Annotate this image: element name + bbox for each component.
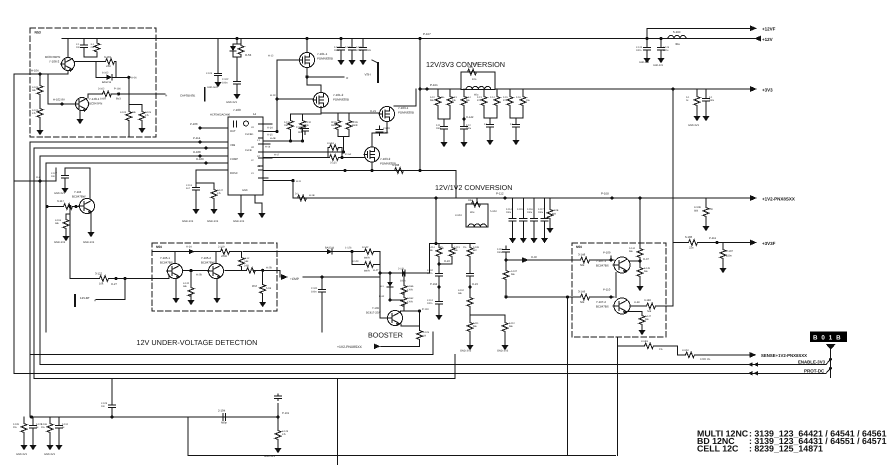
svg-text:GND-3V3: GND-3V3 bbox=[54, 241, 66, 244]
svg-text:N50: N50 bbox=[576, 245, 582, 249]
svg-text:100n: 100n bbox=[709, 99, 715, 102]
svg-text:860R: 860R bbox=[364, 257, 370, 260]
svg-text:220u: 220u bbox=[663, 49, 669, 52]
svg-text:470R: 470R bbox=[407, 289, 413, 292]
svg-text:GND-3V3: GND-3V3 bbox=[207, 220, 219, 223]
svg-text:10o: 10o bbox=[472, 78, 477, 81]
svg-text:10k: 10k bbox=[305, 124, 310, 127]
svg-text:6-106: 6-106 bbox=[685, 235, 693, 239]
svg-text:BC847BS: BC847BS bbox=[596, 264, 609, 268]
svg-text:+3V3F: +3V3F bbox=[762, 241, 776, 246]
svg-text:56k: 56k bbox=[454, 249, 459, 252]
svg-text:5-101: 5-101 bbox=[471, 63, 478, 66]
svg-text:1%: 1% bbox=[659, 348, 663, 351]
svg-text:3-102: 3-102 bbox=[682, 349, 689, 352]
svg-text:3-145: 3-145 bbox=[644, 267, 651, 270]
svg-text:56k: 56k bbox=[473, 325, 478, 328]
svg-text:H-30: H-30 bbox=[531, 256, 537, 259]
svg-text:1R: 1R bbox=[423, 335, 426, 338]
svg-text:2-105: 2-105 bbox=[345, 46, 352, 49]
svg-text:H-14: H-14 bbox=[267, 127, 273, 130]
svg-text:12V UNDER-VOLTAGE DETECTION: 12V UNDER-VOLTAGE DETECTION bbox=[136, 338, 257, 347]
svg-text:360R: 360R bbox=[352, 124, 358, 127]
svg-text:1W: 1W bbox=[709, 208, 713, 211]
svg-text:+12V: +12V bbox=[762, 37, 773, 42]
svg-text:H-06: H-06 bbox=[131, 76, 137, 79]
svg-text:H-108: H-108 bbox=[193, 150, 201, 154]
svg-text:N50: N50 bbox=[156, 245, 162, 249]
svg-text:10u: 10u bbox=[526, 99, 531, 102]
svg-text:GND: GND bbox=[242, 189, 248, 192]
svg-text:3-132: 3-132 bbox=[305, 121, 312, 124]
svg-text:1k: 1k bbox=[36, 426, 39, 429]
svg-text:»: » bbox=[165, 93, 168, 98]
svg-text:56k: 56k bbox=[32, 89, 37, 92]
svg-text:56k: 56k bbox=[466, 99, 471, 102]
svg-text:H-53: H-53 bbox=[245, 53, 252, 57]
svg-text:56k: 56k bbox=[644, 270, 649, 273]
svg-text:PDMN630B: PDMN630B bbox=[333, 98, 349, 102]
svg-text:47k: 47k bbox=[282, 433, 287, 436]
svg-text:»: » bbox=[346, 75, 349, 80]
svg-text:56k: 56k bbox=[580, 301, 585, 304]
svg-text:3-101: 3-101 bbox=[104, 55, 112, 59]
svg-text:BC847BW: BC847BW bbox=[72, 195, 86, 199]
svg-text:CxCB: CxCB bbox=[245, 149, 252, 152]
svg-text:3-143: 3-143 bbox=[352, 260, 359, 263]
svg-text:B 0 1 B: B 0 1 B bbox=[813, 335, 842, 342]
svg-text:2-114: 2-114 bbox=[506, 208, 512, 211]
svg-text:GND-3V3: GND-3V3 bbox=[497, 350, 509, 353]
svg-text:7-103-1: 7-103-1 bbox=[398, 106, 409, 110]
svg-text:56k: 56k bbox=[245, 260, 250, 263]
svg-text:L1: L1 bbox=[257, 139, 260, 142]
svg-text:N53: N53 bbox=[35, 31, 41, 35]
svg-text:22u: 22u bbox=[13, 426, 18, 429]
svg-text:56k: 56k bbox=[430, 99, 435, 102]
svg-text:CAPSENSE: CAPSENSE bbox=[180, 94, 195, 98]
svg-text:4n7: 4n7 bbox=[186, 187, 191, 190]
svg-text:2-104: 2-104 bbox=[218, 409, 226, 413]
svg-text:56k: 56k bbox=[647, 310, 652, 313]
svg-text:3-144: 3-144 bbox=[629, 247, 636, 250]
svg-text:OUT: OUT bbox=[230, 130, 236, 133]
svg-text:P-1x2: P-1x2 bbox=[345, 153, 352, 156]
svg-text:P-114: P-114 bbox=[193, 136, 201, 140]
svg-text:56k: 56k bbox=[132, 111, 137, 114]
svg-text:3-108: 3-108 bbox=[392, 163, 400, 167]
svg-text:100u: 100u bbox=[506, 211, 512, 214]
svg-text:5.1B: 5.1B bbox=[266, 287, 271, 290]
svg-text:47k: 47k bbox=[145, 114, 150, 117]
svg-text:3-147: 3-147 bbox=[645, 315, 652, 318]
svg-text:56k: 56k bbox=[511, 273, 516, 276]
svg-text:100u: 100u bbox=[527, 211, 533, 214]
svg-text:GND-3V3: GND-3V3 bbox=[44, 453, 55, 456]
svg-text:56k: 56k bbox=[580, 264, 585, 267]
svg-text:3-124: 3-124 bbox=[327, 142, 334, 145]
svg-text:GND-3V3: GND-3V3 bbox=[226, 101, 237, 104]
svg-text:5-100: 5-100 bbox=[673, 30, 681, 34]
svg-text:3-148: 3-148 bbox=[578, 253, 586, 257]
svg-text:56k: 56k bbox=[509, 325, 514, 328]
svg-text:2-118: 2-118 bbox=[497, 248, 503, 251]
svg-text:56k: 56k bbox=[629, 250, 634, 253]
svg-text:ROSC: ROSC bbox=[230, 172, 238, 175]
svg-text:3-1: 3-1 bbox=[295, 193, 299, 196]
svg-text:3-124: 3-124 bbox=[62, 423, 69, 426]
svg-text:2-13: 2-13 bbox=[477, 96, 482, 99]
svg-text:SENSE+1V2-PNX8SXX: SENSE+1V2-PNX8SXX bbox=[761, 353, 807, 358]
svg-text:H-15: H-15 bbox=[267, 134, 273, 137]
svg-text:1%: 1% bbox=[440, 246, 443, 249]
svg-text:24k: 24k bbox=[452, 99, 457, 102]
svg-text:40u: 40u bbox=[675, 42, 680, 46]
svg-text:3n3: 3n3 bbox=[384, 132, 389, 135]
svg-text:PDMN630B: PDMN630B bbox=[398, 111, 414, 115]
svg-text:3E1B: 3E1B bbox=[352, 121, 358, 124]
svg-text:GND-AUD: GND-AUD bbox=[207, 86, 218, 89]
svg-text:7-109: 7-109 bbox=[372, 307, 379, 310]
svg-text:360R: 360R bbox=[331, 124, 337, 127]
svg-text:100n: 100n bbox=[222, 82, 228, 85]
svg-text:3-142: 3-142 bbox=[362, 246, 369, 249]
svg-text:5-102: 5-102 bbox=[490, 210, 497, 213]
svg-text:P-103: P-103 bbox=[190, 122, 198, 126]
svg-text:2-1: 2-1 bbox=[709, 96, 713, 99]
svg-text:3-1: 3-1 bbox=[686, 96, 690, 99]
svg-text:2-115: 2-115 bbox=[517, 208, 523, 211]
svg-text:GND-3V3: GND-3V3 bbox=[83, 241, 95, 244]
svg-text:GND-3V3: GND-3V3 bbox=[460, 350, 472, 353]
svg-text:3-146: 3-146 bbox=[644, 299, 651, 302]
svg-text:22o: 22o bbox=[689, 247, 694, 250]
svg-text:100R: 100R bbox=[100, 98, 106, 101]
svg-text:BAS216: BAS216 bbox=[102, 81, 112, 84]
svg-text:H-102 8V: H-102 8V bbox=[53, 98, 65, 102]
svg-text:860R: 860R bbox=[364, 270, 370, 273]
svg-text:22u: 22u bbox=[41, 426, 46, 429]
svg-text:ENABLE-3V3: ENABLE-3V3 bbox=[798, 360, 826, 365]
svg-text:H-24: H-24 bbox=[186, 246, 192, 249]
svg-text:14: 14 bbox=[253, 112, 257, 116]
svg-text:H-38: H-38 bbox=[634, 301, 640, 304]
svg-text:200R: 200R bbox=[221, 255, 227, 258]
svg-text:H-47: H-47 bbox=[373, 269, 379, 272]
svg-text:1%: 1% bbox=[463, 246, 466, 249]
svg-text:GND-3V3: GND-3V3 bbox=[16, 453, 27, 456]
svg-text:PDZ: PDZ bbox=[252, 285, 257, 288]
svg-text:3-103: 3-103 bbox=[455, 214, 462, 217]
svg-text:H-11: H-11 bbox=[296, 180, 302, 183]
svg-text:100n: 100n bbox=[427, 302, 433, 305]
svg-text:P-109: P-109 bbox=[603, 251, 611, 255]
svg-text:CELL 12C: CELL 12C bbox=[697, 444, 739, 454]
svg-text:P-107: P-107 bbox=[423, 32, 431, 36]
svg-text:3-102: 3-102 bbox=[98, 88, 105, 91]
svg-text:3-14: 3-14 bbox=[466, 96, 471, 99]
svg-text:40u: 40u bbox=[470, 211, 475, 214]
svg-text:100u: 100u bbox=[466, 127, 472, 130]
svg-text:GND-3V3: GND-3V3 bbox=[264, 455, 275, 458]
svg-text:2-109: 2-109 bbox=[383, 127, 390, 130]
svg-text:P-108: P-108 bbox=[601, 192, 609, 196]
svg-text:2-116: 2-116 bbox=[527, 208, 533, 211]
svg-text:684: 684 bbox=[552, 213, 557, 216]
svg-text:12V-BT: 12V-BT bbox=[80, 296, 90, 300]
svg-text:H-2: H-2 bbox=[36, 176, 41, 179]
svg-text:2-14: 2-14 bbox=[490, 96, 495, 99]
svg-text:P-112: P-112 bbox=[496, 192, 504, 196]
svg-text:16V: 16V bbox=[367, 49, 372, 52]
svg-text:3-112: 3-112 bbox=[509, 322, 515, 325]
svg-text:VSH: VSH bbox=[365, 73, 371, 77]
svg-text:3-107: 3-107 bbox=[511, 270, 518, 273]
svg-text:3-13: 3-13 bbox=[452, 96, 457, 99]
svg-text:: 8239_125_14871: : 8239_125_14871 bbox=[749, 444, 823, 454]
svg-text:47k: 47k bbox=[32, 112, 37, 115]
svg-text:3-125: 3-125 bbox=[330, 162, 337, 165]
svg-text:56k: 56k bbox=[458, 292, 463, 295]
svg-text:P-110: P-110 bbox=[603, 288, 611, 292]
svg-text:GND-3V3: GND-3V3 bbox=[639, 61, 650, 64]
svg-text:100u: 100u bbox=[436, 127, 442, 130]
svg-text:R63: R63 bbox=[468, 66, 473, 69]
svg-text:GND-3V3: GND-3V3 bbox=[233, 220, 245, 223]
svg-text:12V/3V3 CONVERSION: 12V/3V3 CONVERSION bbox=[426, 60, 505, 69]
svg-text:2-106: 2-106 bbox=[41, 423, 48, 426]
svg-text:PROT-DC: PROT-DC bbox=[804, 368, 825, 373]
svg-text:L2: L2 bbox=[251, 159, 254, 162]
svg-text:H-2B: H-2B bbox=[266, 267, 272, 270]
svg-text:3-109: 3-109 bbox=[473, 246, 480, 249]
svg-text:+CMP: +CMP bbox=[290, 277, 299, 281]
svg-text:H-17: H-17 bbox=[274, 154, 280, 157]
svg-text:470u: 470u bbox=[356, 49, 362, 52]
svg-text:H-21: H-21 bbox=[370, 109, 377, 113]
svg-text:R62: R62 bbox=[468, 199, 473, 202]
svg-text:+3V3: +3V3 bbox=[762, 88, 773, 93]
svg-text:BC847BW: BC847BW bbox=[201, 261, 215, 265]
svg-text:7-107-2: 7-107-2 bbox=[596, 300, 606, 304]
svg-text:100n: 100n bbox=[497, 251, 503, 254]
svg-text:7-100: 7-100 bbox=[233, 108, 241, 112]
svg-text:3E1B: 3E1B bbox=[331, 121, 337, 124]
svg-text:2-105: 2-105 bbox=[13, 423, 20, 426]
svg-text:10n: 10n bbox=[76, 46, 81, 49]
svg-text:7-148-1: 7-148-1 bbox=[89, 97, 100, 101]
svg-text:BC847PN: BC847PN bbox=[89, 102, 102, 106]
svg-text:100n: 100n bbox=[311, 291, 317, 294]
svg-text:H-13: H-13 bbox=[270, 94, 276, 97]
svg-text:GND-3V3: GND-3V3 bbox=[182, 220, 194, 223]
svg-text:P-101: P-101 bbox=[282, 412, 290, 415]
svg-text:H-1B: H-1B bbox=[309, 194, 315, 197]
svg-text:B-1: B-1 bbox=[380, 285, 384, 288]
svg-text:COMP: COMP bbox=[230, 158, 238, 161]
svg-text:GND-3V3: GND-3V3 bbox=[688, 124, 699, 127]
svg-text:3-12: 3-12 bbox=[430, 96, 435, 99]
svg-text:1k: 1k bbox=[686, 99, 689, 102]
svg-text:1%: 1% bbox=[441, 96, 444, 99]
svg-text:H-37: H-37 bbox=[643, 258, 649, 261]
svg-text:BAS316: BAS316 bbox=[325, 247, 335, 250]
svg-text:BOOSTER: BOOSTER bbox=[368, 332, 403, 340]
svg-text:P-104: P-104 bbox=[430, 283, 438, 286]
svg-text:1k: 1k bbox=[62, 426, 65, 429]
svg-text:2-106: 2-106 bbox=[356, 46, 363, 49]
svg-text:3-114: 3-114 bbox=[429, 246, 435, 249]
svg-text:BV3: BV3 bbox=[116, 98, 121, 101]
svg-text:2-12: 2-12 bbox=[466, 124, 471, 127]
svg-text:H-2B: H-2B bbox=[196, 274, 202, 277]
svg-text:2-131: 2-131 bbox=[398, 268, 405, 271]
svg-text:7-106-2: 7-106-2 bbox=[49, 60, 60, 64]
svg-text:H2: H2 bbox=[251, 146, 255, 149]
svg-text:470R: 470R bbox=[407, 301, 413, 304]
svg-text:7-104: 7-104 bbox=[74, 190, 82, 194]
svg-text:H-4B: H-4B bbox=[270, 137, 276, 140]
svg-text:2-15: 2-15 bbox=[503, 96, 508, 99]
svg-text:3-1B1: 3-1B1 bbox=[641, 340, 648, 343]
svg-text:H-32: H-32 bbox=[379, 295, 385, 298]
svg-text:7-105-2: 7-105-2 bbox=[201, 256, 211, 260]
svg-text:2-107: 2-107 bbox=[726, 250, 733, 253]
svg-text:+1V2-PNX8SXX: +1V2-PNX8SXX bbox=[337, 345, 363, 349]
svg-text:22R: 22R bbox=[106, 65, 111, 68]
svg-text:HCF5402ACH80: HCF5402ACH80 bbox=[210, 113, 231, 116]
svg-text:100n: 100n bbox=[334, 49, 340, 52]
svg-text:120R 1%: 120R 1% bbox=[700, 358, 711, 361]
svg-text:H-104: H-104 bbox=[31, 69, 39, 73]
svg-text:H-109: H-109 bbox=[196, 157, 204, 161]
svg-text:7-103-2: 7-103-2 bbox=[380, 157, 391, 161]
svg-text:56k: 56k bbox=[183, 285, 188, 288]
svg-text:6-102: 6-102 bbox=[102, 72, 109, 75]
svg-text:3-117: 3-117 bbox=[57, 199, 64, 203]
svg-text:680p: 680p bbox=[221, 422, 227, 425]
svg-text:L1: L1 bbox=[251, 133, 254, 136]
svg-text:3-113: 3-113 bbox=[454, 246, 460, 249]
svg-text:GND-3V3: GND-3V3 bbox=[54, 192, 65, 195]
svg-text:10n: 10n bbox=[101, 405, 106, 408]
svg-text:100n: 100n bbox=[400, 280, 406, 283]
svg-text:BC847BS: BC847BS bbox=[160, 261, 173, 265]
svg-text:220n: 220n bbox=[726, 255, 732, 258]
svg-text:2-103: 2-103 bbox=[206, 72, 213, 75]
svg-text:GND-3V3: GND-3V3 bbox=[653, 64, 664, 67]
svg-text:PDMN630B: PDMN630B bbox=[317, 57, 333, 61]
svg-text:H-142: H-142 bbox=[466, 116, 474, 119]
svg-text:7-101-1: 7-101-1 bbox=[317, 52, 328, 56]
svg-text:P-106: P-106 bbox=[114, 88, 121, 91]
svg-text:3-122: 3-122 bbox=[95, 272, 103, 276]
svg-text:3-104: 3-104 bbox=[120, 111, 127, 114]
svg-text:3-B1: 3-B1 bbox=[244, 265, 250, 268]
svg-text:7-101-2: 7-101-2 bbox=[333, 93, 344, 97]
svg-text:H-23: H-23 bbox=[472, 283, 478, 286]
svg-text:L3: L3 bbox=[251, 172, 254, 175]
svg-text:H-16: H-16 bbox=[265, 146, 271, 149]
svg-text:H-12: H-12 bbox=[268, 55, 274, 58]
svg-text:BC817-25W: BC817-25W bbox=[366, 312, 381, 315]
svg-text:56k: 56k bbox=[55, 222, 60, 225]
svg-text:684: 684 bbox=[694, 210, 699, 213]
svg-text:2-11: 2-11 bbox=[436, 124, 441, 127]
svg-text:100u: 100u bbox=[538, 211, 544, 214]
svg-text:BC847BPN: BC847BPN bbox=[45, 55, 60, 59]
svg-text:H-22: H-22 bbox=[444, 260, 450, 263]
svg-text:10n: 10n bbox=[51, 175, 56, 178]
svg-text:+12VF: +12VF bbox=[762, 27, 776, 32]
svg-text:8k2: 8k2 bbox=[473, 249, 477, 252]
svg-text:7-105-1: 7-105-1 bbox=[160, 256, 170, 260]
svg-text:+1V2-PNX8SXX: +1V2-PNX8SXX bbox=[762, 197, 795, 202]
svg-text:2-119: 2-119 bbox=[218, 246, 225, 249]
svg-text:1-126: 1-126 bbox=[345, 247, 352, 250]
svg-text:P-113: P-113 bbox=[422, 308, 429, 311]
svg-text:BC847BS: BC847BS bbox=[596, 305, 609, 309]
svg-text:10k: 10k bbox=[99, 283, 104, 286]
svg-text:3-149: 3-149 bbox=[578, 290, 586, 294]
svg-text:VFB: VFB bbox=[230, 144, 235, 147]
svg-text:2-104: 2-104 bbox=[334, 46, 341, 49]
svg-text:3-111: 3-111 bbox=[473, 322, 479, 325]
svg-text:3-131: 3-131 bbox=[284, 121, 291, 124]
svg-text:H-27: H-27 bbox=[111, 283, 117, 286]
svg-text:H1: H1 bbox=[251, 126, 255, 129]
svg-text:100n: 100n bbox=[636, 49, 642, 52]
svg-text:2-16: 2-16 bbox=[516, 96, 521, 99]
svg-text:56k: 56k bbox=[645, 318, 650, 321]
svg-text:P-111: P-111 bbox=[709, 236, 716, 240]
svg-text:P-101: P-101 bbox=[430, 83, 438, 87]
svg-text:2-117: 2-117 bbox=[538, 208, 544, 211]
svg-text:47k: 47k bbox=[217, 192, 222, 195]
